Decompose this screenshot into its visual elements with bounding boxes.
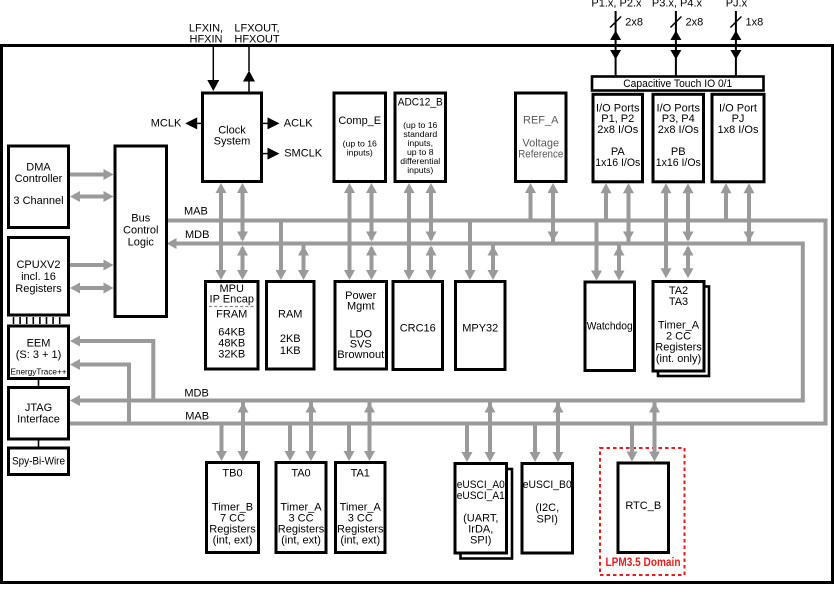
svg-text:JTAG: JTAG <box>25 402 52 414</box>
wire IO-P3P4-TA2 data line <box>686 189 690 239</box>
svg-text:2x8: 2x8 <box>625 16 643 28</box>
svg-text:Bus: Bus <box>131 213 150 225</box>
wire JTAG-SBW link <box>38 439 40 448</box>
svg-text:SPI): SPI) <box>537 513 558 525</box>
block TA1 Timer_A <box>336 463 386 553</box>
block CPUXV2 <box>9 238 69 316</box>
svg-text:(int, ext): (int, ext) <box>281 534 321 546</box>
svg-text:Controller: Controller <box>15 173 63 185</box>
svg-text:TA3: TA3 <box>669 296 688 308</box>
block eUSCI_A0 A1 <box>455 464 507 554</box>
wire EEM-JTAG link <box>38 379 40 388</box>
svg-text:PJ.x: PJ.x <box>726 0 748 10</box>
svg-text:1x8 I/Os: 1x8 I/Os <box>718 124 759 136</box>
wire IO-PJ address line <box>724 189 728 220</box>
svg-text:Reference: Reference <box>518 149 563 161</box>
wire REF_A data line <box>551 189 555 244</box>
svg-text:MDB: MDB <box>184 388 208 400</box>
svg-text:FRAM: FRAM <box>216 309 247 321</box>
block Spy-Bi-Wire <box>9 448 69 475</box>
block RTC_B <box>618 463 669 553</box>
block MPU FRAM <box>206 282 259 370</box>
svg-text:eUSCI_B0: eUSCI_B0 <box>523 479 572 491</box>
block TA2 TA3 Timer_A <box>653 282 704 372</box>
svg-text:IP Encap: IP Encap <box>210 294 254 306</box>
wire eUSCI_B address line <box>533 424 537 457</box>
wire TA0 address line <box>288 424 292 456</box>
svg-text:(int, ext): (int, ext) <box>213 534 253 546</box>
wire TB0 address line <box>220 424 224 456</box>
svg-text:(I2C,: (I2C, <box>535 502 559 514</box>
wire IO-PJ data line <box>747 189 751 243</box>
wire MPY32 address line <box>468 221 472 275</box>
svg-text:EEM: EEM <box>27 338 51 350</box>
svg-text:RAM: RAM <box>278 309 302 321</box>
svg-text:MDB: MDB <box>185 229 209 241</box>
svg-text:2KB: 2KB <box>280 333 301 345</box>
svg-text:CPUXV2: CPUXV2 <box>16 259 60 271</box>
wire Clock-MPU address line <box>219 189 223 274</box>
svg-text:1x16 I/Os: 1x16 I/Os <box>656 157 701 169</box>
svg-text:Logic: Logic <box>128 237 155 249</box>
svg-text:Brownout: Brownout <box>337 349 384 361</box>
wire IO-P1P2 data line <box>627 189 631 243</box>
svg-text:(S: 3 + 1): (S: 3 + 1) <box>16 349 62 361</box>
wire eUSCI_B data line <box>556 403 560 457</box>
block REF_A Voltage Reference <box>516 93 567 182</box>
svg-text:inputs): inputs) <box>407 165 433 175</box>
svg-text:MCLK: MCLK <box>151 117 182 129</box>
svg-text:eUSCI_A1: eUSCI_A1 <box>457 490 505 502</box>
wire port pin PJ.x <box>735 11 737 76</box>
wire IO-P3P4-TA2 address line <box>664 189 668 272</box>
svg-text:System: System <box>214 136 251 148</box>
bus MAB top + right wrap + bottom MAB <box>70 221 826 424</box>
svg-text:TA1: TA1 <box>351 468 370 480</box>
svg-text:MAB: MAB <box>184 206 208 218</box>
svg-text:TB0: TB0 <box>222 468 242 480</box>
svg-text:(int. only): (int. only) <box>656 353 701 365</box>
block TB0 Timer_B <box>207 463 259 553</box>
wire RTC_B address line <box>630 424 634 456</box>
block I/O Port PJ <box>712 94 764 182</box>
svg-text:inputs): inputs) <box>347 147 373 157</box>
wire MCLK output <box>197 122 203 124</box>
svg-text:Capacitive Touch IO 0/1: Capacitive Touch IO 0/1 <box>623 78 732 90</box>
wire ACLK output <box>262 122 269 124</box>
block eUSCI_A0 A1 shadow <box>461 469 513 559</box>
block DMA Controller <box>9 146 69 228</box>
svg-text:Watchdog: Watchdog <box>587 321 633 333</box>
block Comp_E <box>334 93 386 182</box>
wire ADC-CRC16 data line <box>429 189 433 240</box>
wire LFXIN input arrow <box>212 47 214 82</box>
wire Watchdog data line <box>617 246 621 275</box>
wire eUSCI_A address line <box>465 424 469 457</box>
wire TA1 data line <box>368 403 372 456</box>
svg-text:2x8 I/Os: 2x8 I/Os <box>658 124 699 136</box>
block eUSCI_B0 <box>522 464 573 554</box>
block Capacitive Touch IO <box>592 77 764 91</box>
svg-text:Spy-Bi-Wire: Spy-Bi-Wire <box>12 455 65 467</box>
svg-text:Interface: Interface <box>17 414 60 426</box>
wire MDB branch to EEM <box>76 341 153 401</box>
svg-text:incl. 16: incl. 16 <box>21 271 56 283</box>
block TA0 Timer_A <box>276 463 326 553</box>
wire SMCLK output <box>262 153 269 155</box>
svg-text:Clock: Clock <box>218 124 246 136</box>
bus MDB top + right wrap + bottom MDB <box>79 244 803 401</box>
svg-text:SMCLK: SMCLK <box>284 148 323 160</box>
svg-text:TA0: TA0 <box>291 468 310 480</box>
wire CompE-PowerMgmt data line <box>370 189 374 240</box>
svg-text:MAB: MAB <box>185 411 209 423</box>
wire TB0 data line <box>241 403 245 456</box>
svg-text:REF_A: REF_A <box>523 115 559 127</box>
block Clock System <box>203 93 262 182</box>
svg-text:2x8: 2x8 <box>686 16 704 28</box>
svg-text:RTC_B: RTC_B <box>625 500 661 512</box>
block MPY32 <box>456 282 506 370</box>
wire port pin P1.x, P2.x <box>615 11 617 76</box>
svg-text:ACLK: ACLK <box>284 117 313 129</box>
block RAM <box>267 282 315 370</box>
wire REF_A address line <box>529 189 533 221</box>
wire Watchdog address line <box>595 221 599 275</box>
svg-text:EnergyTrace++: EnergyTrace++ <box>11 367 67 377</box>
block CRC16 <box>393 282 443 370</box>
svg-text:SPI): SPI) <box>470 535 491 547</box>
svg-text:Control: Control <box>123 225 158 237</box>
wire MAB branch to EEM <box>76 365 129 424</box>
wire DMA to Bus Control <box>70 173 104 177</box>
wire LFXOUT output arrow <box>248 47 250 71</box>
block Bus Control Logic <box>115 146 167 317</box>
wire TA1 address line <box>347 424 351 456</box>
svg-text:32KB: 32KB <box>218 349 245 361</box>
svg-text:1x16 I/Os: 1x16 I/Os <box>595 157 640 169</box>
wire IO-P1P2 address line <box>604 189 608 220</box>
svg-text:HFXOUT: HFXOUT <box>234 33 280 45</box>
svg-text:HFXIN: HFXIN <box>190 33 223 45</box>
svg-text:MPY32: MPY32 <box>462 323 498 335</box>
svg-text:DMA: DMA <box>26 162 51 174</box>
svg-text:1KB: 1KB <box>280 345 301 357</box>
block I/O Ports P3 P4 <box>653 94 704 182</box>
svg-text:(int, ext): (int, ext) <box>340 534 380 546</box>
svg-text:LPM3.5 Domain: LPM3.5 Domain <box>606 557 681 569</box>
svg-text:Comp_E: Comp_E <box>338 115 381 127</box>
LPM3.5 Domain dashed boundary <box>600 448 685 575</box>
wire RAM address line <box>279 221 283 275</box>
svg-text:ADC12_B: ADC12_B <box>398 97 443 109</box>
block Watchdog <box>585 282 635 371</box>
svg-text:P1.x, P2.x: P1.x, P2.x <box>591 0 642 10</box>
block JTAG Interface <box>9 388 69 440</box>
wire ADC-CRC16 address line <box>407 189 411 274</box>
svg-text:2x8 I/Os: 2x8 I/Os <box>597 124 638 136</box>
wire CPU to Bus Control <box>70 263 104 267</box>
wire MPY32 data line <box>491 246 495 275</box>
svg-text:1x8: 1x8 <box>746 16 764 28</box>
wire CPU-EEM ribbon ticks <box>13 317 15 324</box>
wire DMA bidirectional <box>79 195 104 199</box>
svg-text:Registers: Registers <box>15 283 62 295</box>
svg-text:(UART,: (UART, <box>463 512 498 524</box>
svg-text:Mgmt: Mgmt <box>347 301 375 313</box>
block I/O Ports P1 P2 <box>593 94 643 182</box>
wire RTC_B data line <box>653 403 657 456</box>
wire TA0 data line <box>309 403 313 456</box>
wire RAM data line <box>302 246 306 275</box>
svg-text:CRC16: CRC16 <box>400 323 436 335</box>
wire CPU bidirectional <box>79 286 104 290</box>
block Power Mgmt <box>335 282 387 370</box>
block EEM <box>9 326 69 379</box>
wire port pin P3.x, P4.x <box>675 11 677 76</box>
block TA2 TA3 Timer_A shadow <box>658 287 709 377</box>
svg-text:P3.x, P4.x: P3.x, P4.x <box>652 0 703 10</box>
svg-text:3 Channel: 3 Channel <box>13 195 63 207</box>
block ADC12_B <box>395 93 446 182</box>
wire Clock-MPU data line <box>241 189 245 240</box>
wire eUSCI_A data line <box>488 403 492 457</box>
wire CompE-PowerMgmt address line <box>348 189 352 274</box>
